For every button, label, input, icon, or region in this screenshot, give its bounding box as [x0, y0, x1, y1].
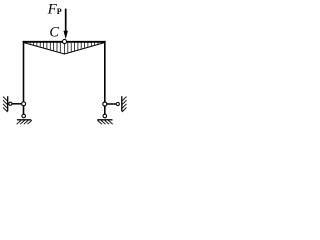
svg-text:P: P [57, 7, 62, 16]
svg-text:C: C [49, 25, 59, 41]
